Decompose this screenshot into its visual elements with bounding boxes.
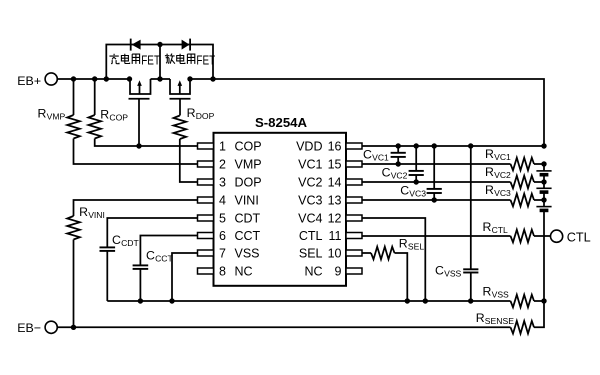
- svg-text:5: 5: [219, 212, 226, 226]
- label RDOP: [187, 106, 215, 121]
- svg-text:CCT: CCT: [235, 229, 261, 243]
- svg-text:16: 16: [328, 140, 342, 154]
- svg-text:VC1: VC1: [494, 152, 511, 162]
- svg-text:15: 15: [328, 158, 342, 172]
- capacitor CVC1: [391, 146, 406, 164]
- label charge FET (charging-use FET): [109, 54, 160, 68]
- svg-text:CTL: CTL: [567, 230, 591, 244]
- battery cell 2: [536, 182, 551, 200]
- label RVMP: [38, 107, 66, 122]
- svg-text:VMP: VMP: [235, 158, 262, 172]
- svg-text:C: C: [435, 264, 444, 278]
- resistor RSENSE: [511, 301, 545, 334]
- svg-text:EB−: EB−: [17, 321, 41, 335]
- svg-text:10: 10: [328, 247, 342, 261]
- svg-text:4: 4: [219, 194, 226, 208]
- svg-text:C: C: [112, 233, 121, 247]
- svg-text:6: 6: [219, 229, 226, 243]
- pin 13 VC3: [298, 194, 362, 208]
- label RSENSE: [476, 311, 515, 326]
- label RVSS: [483, 285, 510, 300]
- pin 3 DOP: [198, 176, 262, 190]
- pin 4 VINI: [198, 194, 259, 208]
- svg-text:2: 2: [219, 158, 226, 172]
- svg-text:VC3: VC3: [409, 188, 426, 198]
- pin 12 VC4: [298, 212, 362, 226]
- svg-text:3: 3: [219, 176, 226, 190]
- svg-text:VC1: VC1: [372, 152, 389, 162]
- svg-text:FET: FET: [196, 55, 215, 68]
- diode D2 (discharge FET body diode): [182, 39, 191, 51]
- svg-text:R: R: [485, 165, 494, 179]
- label CVC3: [400, 183, 426, 198]
- svg-text:8: 8: [219, 265, 226, 279]
- svg-text:VINI: VINI: [235, 194, 259, 208]
- pin 6 CCT: [198, 229, 261, 243]
- svg-text:C: C: [363, 147, 372, 161]
- label CVSS: [435, 264, 462, 279]
- svg-text:VC1: VC1: [298, 158, 322, 172]
- terminal EB-: [17, 321, 57, 335]
- pin 14 VC2: [298, 176, 362, 190]
- resistor RCOP: [88, 79, 197, 149]
- pin 8 NC: [198, 265, 253, 279]
- svg-text:VC3: VC3: [298, 194, 322, 208]
- svg-text:CDT: CDT: [121, 238, 139, 248]
- svg-text:VSS: VSS: [492, 290, 509, 300]
- resistor RVINI: [67, 200, 197, 330]
- resistor RVMP: [67, 79, 197, 164]
- svg-text:14: 14: [328, 176, 342, 190]
- svg-text:R: R: [100, 107, 109, 121]
- label RVC1: [485, 147, 511, 162]
- svg-text:SEL: SEL: [299, 247, 323, 261]
- svg-text:CTL: CTL: [299, 229, 323, 243]
- pin 16 VDD: [296, 140, 362, 154]
- svg-text:CCT: CCT: [155, 254, 173, 264]
- svg-text:NC: NC: [304, 265, 322, 279]
- wire EB- net: [57, 326, 511, 328]
- resistor RVSS: [511, 295, 547, 308]
- svg-text:COP: COP: [235, 140, 262, 154]
- node rail junctions: [71, 76, 216, 81]
- svg-text:VC4: VC4: [298, 212, 322, 226]
- pin 15 VC1: [298, 158, 362, 172]
- op-amp U1 S-8254A IC body: [214, 115, 347, 286]
- svg-text:VC3: VC3: [494, 188, 511, 198]
- svg-text:VSS: VSS: [444, 269, 461, 279]
- label RVC2: [485, 165, 511, 180]
- pin 2 VMP: [198, 158, 262, 172]
- svg-text:VDD: VDD: [296, 140, 322, 154]
- capacitor CCCT: [133, 236, 198, 304]
- pin 10 SEL: [299, 247, 362, 261]
- svg-text:DOP: DOP: [196, 111, 215, 121]
- label RCTL: [483, 220, 509, 235]
- resistor RSEL: [362, 247, 410, 304]
- label CVC2: [382, 165, 408, 180]
- wire EB+ rail mid: [151, 78, 171, 80]
- svg-text:R: R: [485, 183, 494, 197]
- label RSEL: [399, 237, 425, 252]
- pin 11 CTL: [299, 229, 362, 243]
- label RVINI: [79, 205, 105, 220]
- svg-text:R: R: [483, 220, 492, 234]
- resistor RVC1: [362, 158, 547, 171]
- transistor Q2 discharge FET: [170, 79, 191, 116]
- svg-text:R: R: [38, 107, 47, 121]
- svg-text:VMP: VMP: [47, 112, 66, 122]
- svg-text:SEL: SEL: [408, 242, 424, 252]
- terminal CTL: [551, 230, 591, 244]
- svg-text:R: R: [485, 147, 494, 161]
- svg-text:13: 13: [328, 194, 342, 208]
- svg-text:C: C: [382, 165, 391, 179]
- svg-text:FET: FET: [141, 55, 160, 68]
- svg-text:R: R: [79, 205, 88, 219]
- capacitor CCDT: [100, 218, 198, 301]
- battery cell 3: [536, 200, 551, 301]
- wire EB+ rail left: [57, 78, 130, 80]
- svg-text:VSS: VSS: [235, 247, 260, 261]
- wire VSS pin7: [169, 253, 197, 304]
- svg-text:CDT: CDT: [235, 212, 261, 226]
- svg-text:EB+: EB+: [17, 74, 41, 88]
- resistor RCTL: [362, 230, 551, 243]
- capacitor CVC3: [427, 146, 442, 200]
- transistor Q1 charge FET: [129, 79, 151, 146]
- svg-text:R: R: [187, 106, 196, 120]
- svg-text:C: C: [400, 183, 409, 197]
- svg-text:VC2: VC2: [494, 170, 511, 180]
- svg-text:11: 11: [329, 229, 342, 243]
- svg-text:NC: NC: [235, 265, 253, 279]
- diode D1 (charge FET body diode): [131, 39, 141, 51]
- capacitor CVC2: [409, 146, 424, 182]
- label RCOP: [100, 107, 128, 122]
- pin 5 CDT: [198, 212, 261, 226]
- svg-text:9: 9: [335, 265, 342, 279]
- resistor RVC2: [362, 176, 547, 189]
- pin 9 NC: [304, 265, 362, 279]
- svg-text:COP: COP: [109, 112, 128, 122]
- svg-text:DOP: DOP: [235, 176, 262, 190]
- capacitor CVSS: [463, 146, 478, 304]
- label CCCT: [146, 249, 174, 264]
- svg-text:1: 1: [219, 140, 226, 154]
- svg-text:VC2: VC2: [298, 176, 322, 190]
- svg-text:VINI: VINI: [88, 210, 105, 220]
- label CCDT: [112, 233, 140, 248]
- svg-text:R: R: [399, 237, 408, 251]
- wire VDD net: [362, 143, 547, 148]
- label RVC3: [485, 183, 511, 198]
- pin 1 COP: [198, 140, 262, 154]
- svg-text:R: R: [476, 311, 485, 325]
- resistor RDOP: [174, 116, 198, 183]
- svg-text:C: C: [146, 249, 155, 263]
- svg-text:12: 12: [328, 212, 342, 226]
- svg-text:S-8254A: S-8254A: [255, 115, 308, 130]
- wire EB+ rail right: [190, 79, 544, 146]
- wire diode mid drop: [157, 42, 162, 79]
- wire VSS net: [107, 300, 510, 302]
- svg-text:CTL: CTL: [492, 225, 508, 235]
- terminal EB+: [17, 73, 57, 88]
- svg-text:R: R: [483, 285, 492, 299]
- svg-text:VC2: VC2: [391, 170, 408, 180]
- pin 7 VSS: [198, 247, 260, 261]
- svg-text:SENSE: SENSE: [485, 316, 514, 326]
- wire diode branch: [106, 45, 213, 80]
- svg-text:7: 7: [219, 247, 226, 261]
- resistor RVC3: [362, 194, 547, 207]
- label discharge FET (discharging-use FET): [165, 54, 215, 68]
- label CVC1: [363, 147, 389, 162]
- wire VC4: [362, 218, 428, 304]
- battery cell 1: [536, 164, 551, 182]
